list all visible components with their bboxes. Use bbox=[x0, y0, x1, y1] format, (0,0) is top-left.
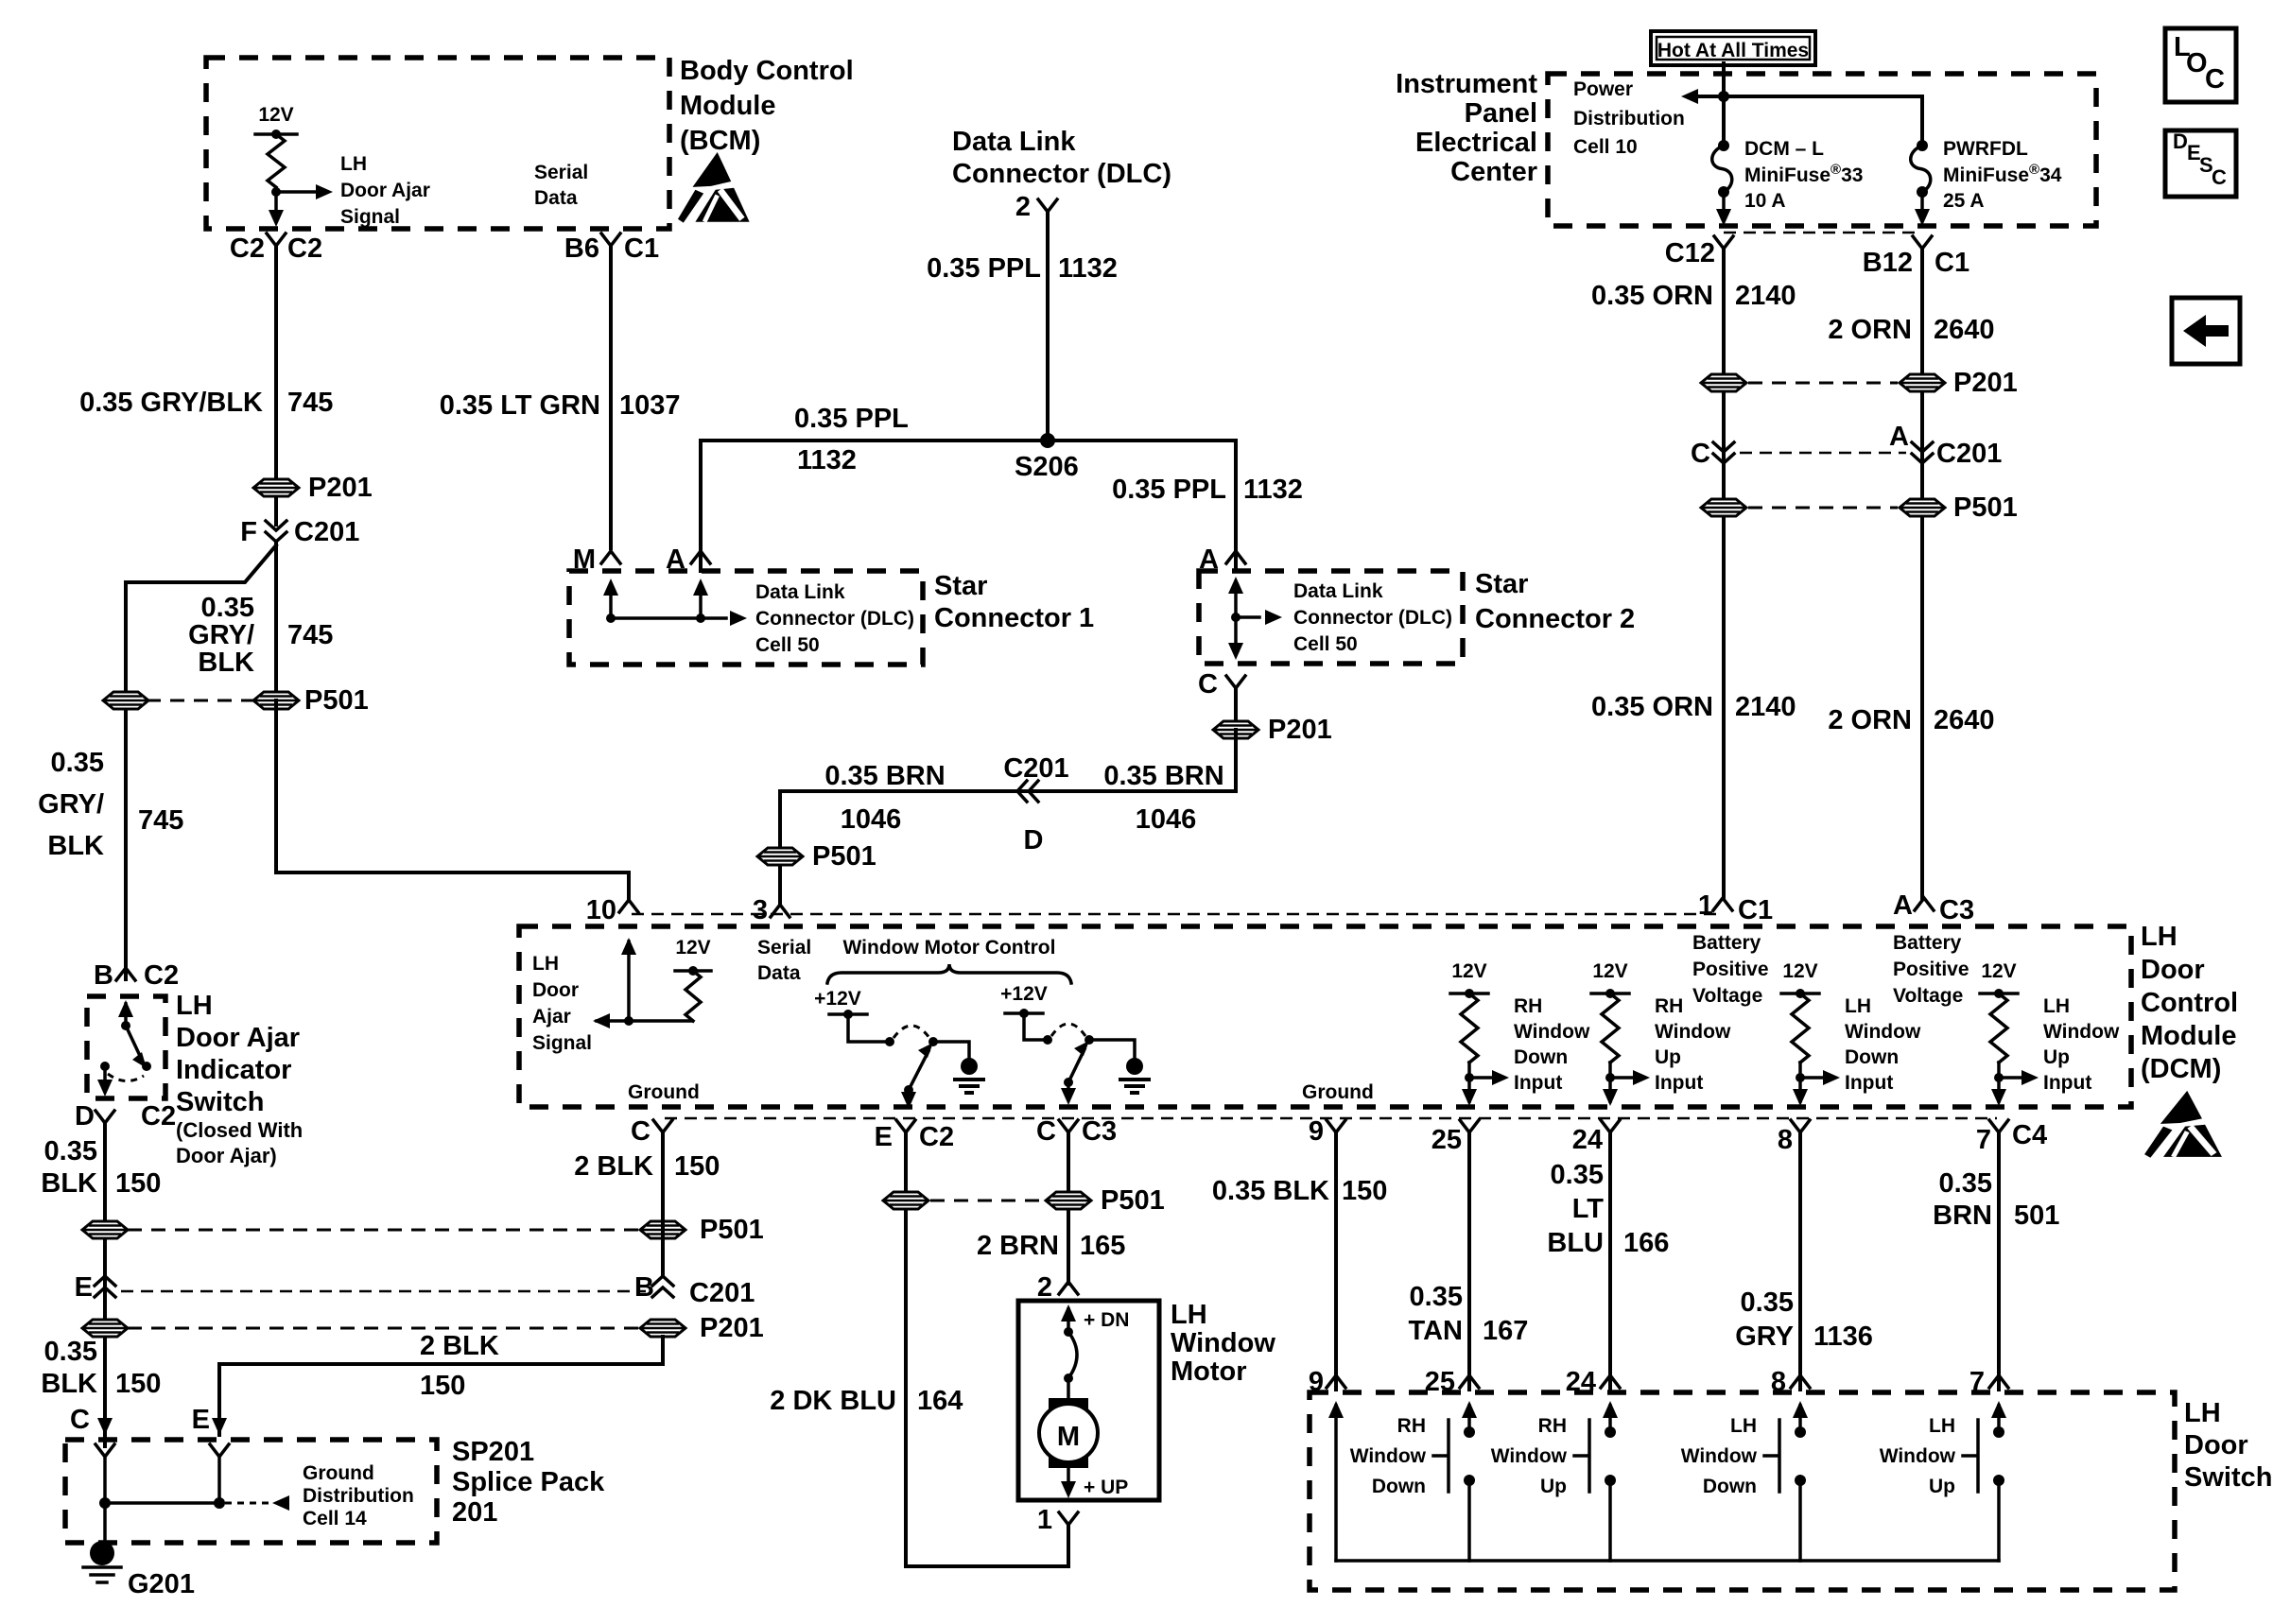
svg-text:25: 25 bbox=[1431, 1125, 1462, 1155]
svg-text:+12V: +12V bbox=[814, 988, 861, 1010]
svg-text:Module: Module bbox=[2141, 1021, 2237, 1051]
svg-text:Signal: Signal bbox=[340, 206, 400, 228]
svg-text:1132: 1132 bbox=[797, 445, 857, 475]
svg-text:Connector 1: Connector 1 bbox=[934, 603, 1094, 633]
svg-text:P501: P501 bbox=[1953, 492, 2018, 523]
svg-text:Input: Input bbox=[1845, 1072, 1893, 1094]
wire 0.35 BRN 501 bbox=[1997, 1132, 2001, 1390]
svg-text:Door: Door bbox=[2141, 955, 2205, 985]
svg-text:B6: B6 bbox=[564, 233, 599, 264]
svg-text:C2: C2 bbox=[141, 1101, 176, 1132]
connector P201 pair ORN bbox=[1748, 382, 1898, 385]
svg-text:Battery: Battery bbox=[1692, 932, 1761, 954]
svg-text:Door: Door bbox=[532, 979, 579, 1001]
svg-text:0.35: 0.35 bbox=[44, 1337, 97, 1367]
svg-text:0.35: 0.35 bbox=[1741, 1287, 1794, 1318]
IPEC connector boundary bbox=[1724, 232, 1922, 234]
svg-text:Ground: Ground bbox=[1302, 1081, 1374, 1103]
svg-text:2 BLK: 2 BLK bbox=[420, 1331, 499, 1361]
svg-text:24: 24 bbox=[1572, 1125, 1603, 1155]
svg-text:Window: Window bbox=[1655, 1021, 1731, 1043]
svg-text:Down: Down bbox=[1703, 1476, 1757, 1497]
svg-text:501: 501 bbox=[2014, 1201, 2059, 1231]
svg-text:10 A: 10 A bbox=[1744, 190, 1786, 212]
svg-text:GRY: GRY bbox=[1735, 1322, 1794, 1352]
svg-text:C: C bbox=[1691, 439, 1710, 469]
svg-text:1136: 1136 bbox=[1813, 1322, 1873, 1352]
svg-text:Cell 10: Cell 10 bbox=[1573, 136, 1638, 158]
svg-text:Window: Window bbox=[2043, 1021, 2120, 1043]
Instrument Panel Electrical Center dashed box bbox=[1548, 74, 2096, 226]
svg-text:150: 150 bbox=[115, 1168, 161, 1199]
svg-text:12V: 12V bbox=[1592, 960, 1627, 982]
svg-text:+ UP: + UP bbox=[1084, 1477, 1128, 1498]
LH Door Ajar Indicator Switch dashed box bbox=[87, 996, 165, 1098]
svg-text:0.35 PPL: 0.35 PPL bbox=[1112, 475, 1226, 505]
wire 0.35 LT BLU 166 bbox=[1608, 1132, 1612, 1390]
svg-text:12V: 12V bbox=[1451, 960, 1486, 982]
svg-text:25 A: 25 A bbox=[1943, 190, 1985, 212]
svg-text:0.35 BRN: 0.35 BRN bbox=[824, 761, 945, 791]
svg-text:(DCM): (DCM) bbox=[2141, 1054, 2221, 1084]
svg-text:0.35 PPL: 0.35 PPL bbox=[794, 404, 909, 434]
svg-text:Serial: Serial bbox=[534, 162, 588, 183]
LOC reference box bbox=[2165, 28, 2236, 102]
svg-text:C201: C201 bbox=[1003, 753, 1068, 784]
svg-text:C2: C2 bbox=[144, 960, 179, 991]
svg-text:Cell 50: Cell 50 bbox=[755, 634, 820, 656]
svg-text:0.35: 0.35 bbox=[1410, 1282, 1463, 1312]
svg-text:PWRFDL: PWRFDL bbox=[1943, 138, 2028, 160]
wire branch diagonal to left leg bbox=[126, 545, 276, 582]
svg-text:9: 9 bbox=[1309, 1116, 1324, 1147]
svg-text:Switch: Switch bbox=[2184, 1462, 2272, 1493]
svg-text:TAN: TAN bbox=[1409, 1316, 1463, 1346]
connector P201 on GRY/BLK wire bbox=[253, 479, 299, 496]
svg-text:1: 1 bbox=[1037, 1505, 1052, 1535]
svg-text:Up: Up bbox=[1929, 1476, 1955, 1497]
svg-text:C1: C1 bbox=[1935, 248, 1969, 278]
svg-text:Star: Star bbox=[934, 571, 987, 601]
svg-text:0.35 GRY/BLK: 0.35 GRY/BLK bbox=[79, 388, 263, 418]
ESD sensitive symbol BCM bbox=[678, 152, 750, 223]
svg-text:0.35: 0.35 bbox=[51, 748, 104, 778]
svg-text:Signal: Signal bbox=[532, 1032, 592, 1054]
LH Door Control Module (DCM) dashed box bbox=[519, 926, 2131, 1107]
svg-text:Serial: Serial bbox=[757, 937, 811, 959]
Star Connector 1 dashed box bbox=[569, 571, 923, 665]
svg-text:Voltage: Voltage bbox=[1893, 985, 1963, 1007]
svg-text:Battery: Battery bbox=[1893, 932, 1962, 954]
svg-text:8: 8 bbox=[1778, 1125, 1793, 1155]
svg-text:C: C bbox=[2212, 165, 2227, 189]
svg-text:C3: C3 bbox=[1082, 1116, 1117, 1147]
svg-text:Door Ajar: Door Ajar bbox=[176, 1023, 300, 1053]
svg-text:Input: Input bbox=[1655, 1072, 1703, 1094]
svg-text:Ground: Ground bbox=[303, 1462, 374, 1484]
connector C201 pin D bbox=[1017, 781, 1027, 802]
svg-text:2140: 2140 bbox=[1735, 281, 1796, 311]
svg-text:GRY/: GRY/ bbox=[188, 620, 254, 650]
svg-text:Control: Control bbox=[2141, 988, 2238, 1018]
svg-text:Input: Input bbox=[2043, 1072, 2091, 1094]
svg-text:Window: Window bbox=[1845, 1021, 1921, 1043]
svg-text:0.35 LT GRN: 0.35 LT GRN bbox=[440, 390, 600, 421]
wire 0.35 ORN 2140 bbox=[1722, 249, 1726, 898]
svg-text:E: E bbox=[192, 1405, 210, 1435]
connector P201 pair lower bbox=[128, 1327, 638, 1330]
svg-text:2: 2 bbox=[1015, 192, 1031, 222]
switch contact arm door ajar bbox=[118, 1000, 133, 1017]
LH Door Switch dashed box bbox=[1310, 1392, 2175, 1590]
svg-text:+12V: +12V bbox=[1000, 983, 1048, 1005]
star connector 2 internal stub bbox=[1234, 584, 1238, 652]
svg-text:Electrical: Electrical bbox=[1415, 128, 1537, 158]
svg-text:10: 10 bbox=[586, 895, 616, 925]
connector P501 left pair bbox=[147, 700, 255, 702]
svg-text:BLK: BLK bbox=[198, 648, 254, 678]
svg-text:0.35 PPL: 0.35 PPL bbox=[927, 253, 1041, 284]
switch LH Window Up bbox=[1991, 1401, 2006, 1418]
svg-text:P201: P201 bbox=[700, 1313, 764, 1343]
resistor BCM pull-up bbox=[268, 134, 285, 187]
svg-text:150: 150 bbox=[420, 1371, 465, 1401]
svg-text:Power: Power bbox=[1573, 78, 1633, 100]
svg-text:C201: C201 bbox=[1936, 439, 2002, 469]
ground symbol switch 2 bbox=[1126, 1058, 1143, 1075]
svg-text:+ DN: + DN bbox=[1084, 1309, 1129, 1331]
svg-text:1132: 1132 bbox=[1058, 253, 1118, 284]
svg-text:P501: P501 bbox=[1101, 1185, 1165, 1216]
svg-text:Positive: Positive bbox=[1692, 959, 1769, 980]
svg-text:E: E bbox=[75, 1272, 93, 1303]
DCM LH Door Ajar Signal circuit bbox=[621, 938, 636, 955]
svg-text:G201: G201 bbox=[128, 1569, 195, 1599]
svg-text:Connector 2: Connector 2 bbox=[1475, 604, 1635, 634]
svg-text:LH: LH bbox=[1171, 1300, 1207, 1330]
svg-text:166: 166 bbox=[1623, 1228, 1669, 1258]
svg-text:150: 150 bbox=[115, 1369, 161, 1399]
svg-text:1132: 1132 bbox=[1243, 475, 1303, 505]
svg-text:Data Link: Data Link bbox=[952, 127, 1076, 157]
wire 2 ORN 2640 bbox=[1920, 249, 1924, 898]
svg-text:167: 167 bbox=[1483, 1316, 1528, 1346]
svg-text:Down: Down bbox=[1845, 1046, 1899, 1068]
BCM 12V rail bbox=[255, 132, 297, 136]
svg-text:Window: Window bbox=[1880, 1445, 1956, 1467]
DCM connector boundary bottom bbox=[665, 1117, 1997, 1120]
door switch bus bbox=[1336, 1559, 1999, 1563]
svg-text:Cell 14: Cell 14 bbox=[303, 1508, 367, 1529]
svg-text:Up: Up bbox=[2043, 1046, 2070, 1068]
svg-text:2 DK BLU: 2 DK BLU bbox=[770, 1386, 896, 1416]
svg-text:BLU: BLU bbox=[1547, 1228, 1604, 1258]
svg-text:Voltage: Voltage bbox=[1692, 985, 1762, 1007]
wire GRY/BLK below C201 bbox=[274, 542, 278, 872]
svg-text:Door Ajar): Door Ajar) bbox=[176, 1144, 277, 1167]
svg-text:Input: Input bbox=[1514, 1072, 1562, 1094]
svg-text:RH: RH bbox=[1538, 1415, 1567, 1437]
svg-text:7: 7 bbox=[1976, 1125, 1991, 1155]
left arrow reference box bbox=[2172, 298, 2240, 364]
svg-text:LH: LH bbox=[532, 953, 559, 975]
svg-text:B12: B12 bbox=[1863, 248, 1913, 278]
svg-text:LT: LT bbox=[1572, 1194, 1605, 1224]
svg-text:LH: LH bbox=[176, 991, 213, 1021]
connector P501 pair to body harness bbox=[128, 1229, 638, 1232]
motor circuit breaker arc bbox=[1061, 1304, 1076, 1322]
wire 2 BRN 165 bbox=[1067, 1132, 1070, 1284]
svg-text:F: F bbox=[240, 517, 257, 547]
svg-text:Down: Down bbox=[1372, 1476, 1426, 1497]
svg-text:C: C bbox=[1036, 1116, 1056, 1147]
svg-text:(BCM): (BCM) bbox=[680, 126, 760, 156]
LH Window Motor box bbox=[1018, 1301, 1159, 1500]
ground distribution dashed stub bbox=[225, 1502, 269, 1505]
wire 0.35 BLK 150 from pin D bbox=[103, 1123, 107, 1446]
wire from Hot At All Times bbox=[1722, 63, 1726, 146]
switch LH Window Down bbox=[1793, 1401, 1808, 1418]
splice bus wires bbox=[103, 1457, 107, 1539]
connector C201 pins C / A bbox=[1740, 452, 1906, 455]
switch 2 wiper to pin C bbox=[1064, 1078, 1073, 1087]
svg-text:1037: 1037 bbox=[619, 390, 681, 421]
svg-text:1046: 1046 bbox=[1136, 804, 1197, 835]
svg-text:P501: P501 bbox=[812, 841, 876, 872]
connector P201 on PPL/BRN wire bbox=[1213, 721, 1258, 738]
svg-text:Data: Data bbox=[534, 187, 578, 209]
svg-text:RH: RH bbox=[1514, 995, 1542, 1017]
svg-text:GRY/: GRY/ bbox=[38, 789, 104, 820]
svg-text:Positive: Positive bbox=[1893, 959, 1969, 980]
svg-text:A: A bbox=[1889, 422, 1909, 452]
svg-text:C201: C201 bbox=[294, 517, 359, 547]
svg-text:2 ORN: 2 ORN bbox=[1828, 705, 1912, 735]
svg-text:P201: P201 bbox=[308, 473, 373, 503]
svg-text:A: A bbox=[1893, 890, 1913, 921]
wire star connector 2 to P201 bbox=[1234, 688, 1238, 791]
switch travel dashed arc bbox=[108, 1074, 144, 1081]
svg-text:Window: Window bbox=[1350, 1445, 1427, 1467]
svg-text:Data Link: Data Link bbox=[755, 581, 845, 603]
svg-text:Distribution: Distribution bbox=[1573, 108, 1685, 130]
svg-text:Ground: Ground bbox=[628, 1081, 700, 1103]
svg-text:C: C bbox=[2205, 64, 2225, 95]
svg-text:Star: Star bbox=[1475, 569, 1528, 599]
svg-text:MiniFuse®34: MiniFuse®34 bbox=[1943, 162, 2062, 186]
wire BCM output down arrow bbox=[274, 192, 278, 212]
ground G201 bbox=[90, 1541, 114, 1565]
ESD sensitive symbol DCM bbox=[2144, 1091, 2222, 1158]
svg-text:P501: P501 bbox=[304, 685, 369, 716]
svg-text:Connector (DLC): Connector (DLC) bbox=[952, 159, 1171, 189]
svg-text:P201: P201 bbox=[1953, 368, 2018, 398]
svg-text:2 BLK: 2 BLK bbox=[574, 1151, 653, 1182]
svg-text:LH: LH bbox=[1730, 1415, 1757, 1437]
svg-text:Cell 50: Cell 50 bbox=[1293, 633, 1358, 655]
svg-text:C4: C4 bbox=[2012, 1120, 2047, 1150]
svg-text:E: E bbox=[875, 1122, 893, 1152]
svg-text:2: 2 bbox=[1037, 1272, 1052, 1303]
SP201 splice pack dashed box bbox=[65, 1440, 437, 1543]
wire motor return bbox=[906, 1524, 1068, 1566]
wire 0.35 PPL 1132 horizontal bbox=[701, 441, 1236, 571]
wire 0.35 GRY 1136 bbox=[1798, 1132, 1802, 1390]
svg-text:M: M bbox=[1057, 1422, 1080, 1452]
svg-text:D: D bbox=[1024, 825, 1044, 855]
svg-text:C2: C2 bbox=[287, 233, 322, 264]
svg-text:DCM – L: DCM – L bbox=[1744, 138, 1824, 160]
svg-text:C12: C12 bbox=[1665, 238, 1715, 268]
svg-text:745: 745 bbox=[287, 620, 333, 650]
svg-text:B: B bbox=[94, 960, 113, 991]
switch 1 wiper to pin E bbox=[904, 1085, 913, 1095]
svg-text:Indicator: Indicator bbox=[176, 1055, 291, 1085]
svg-text:Data Link: Data Link bbox=[1293, 580, 1383, 602]
svg-text:745: 745 bbox=[287, 388, 333, 418]
splice S206 bbox=[1040, 433, 1055, 448]
svg-text:Window: Window bbox=[1491, 1445, 1568, 1467]
svg-text:Window Motor Control: Window Motor Control bbox=[843, 937, 1056, 959]
svg-text:Center: Center bbox=[1450, 157, 1537, 187]
svg-text:D: D bbox=[75, 1101, 95, 1132]
svg-text:201: 201 bbox=[452, 1497, 497, 1528]
switch lower contact to pin D bbox=[100, 1062, 110, 1071]
Star Connector 2 dashed box bbox=[1199, 571, 1463, 664]
door switch ground wire pin 9 bbox=[1328, 1401, 1344, 1418]
svg-text:2 ORN: 2 ORN bbox=[1828, 315, 1912, 345]
svg-text:D: D bbox=[2173, 130, 2188, 153]
svg-text:0.35 ORN: 0.35 ORN bbox=[1591, 281, 1713, 311]
svg-text:LH: LH bbox=[1845, 995, 1871, 1017]
wire 0.35 BLK 150 pin 9 bbox=[1334, 1132, 1338, 1390]
svg-text:C2: C2 bbox=[230, 233, 265, 264]
svg-text:Up: Up bbox=[1540, 1476, 1567, 1497]
svg-text:0.35 BLK: 0.35 BLK bbox=[1212, 1176, 1329, 1206]
svg-text:BRN: BRN bbox=[1933, 1201, 1992, 1231]
svg-text:(Closed With: (Closed With bbox=[176, 1118, 303, 1142]
svg-text:Instrument: Instrument bbox=[1396, 69, 1537, 99]
splice pack pin chevrons bbox=[95, 1444, 114, 1457]
svg-text:LH: LH bbox=[2184, 1398, 2221, 1428]
wire 0.35 GRY/BLK 745 from BCM C2 bbox=[274, 246, 278, 525]
svg-text:0.35 BRN: 0.35 BRN bbox=[1103, 761, 1223, 791]
svg-text:RH: RH bbox=[1397, 1415, 1426, 1437]
svg-text:Panel: Panel bbox=[1465, 98, 1537, 129]
svg-text:Down: Down bbox=[1514, 1046, 1568, 1068]
svg-text:Door Ajar: Door Ajar bbox=[340, 180, 430, 201]
svg-text:12V: 12V bbox=[1782, 960, 1817, 982]
svg-text:Up: Up bbox=[1655, 1046, 1681, 1068]
svg-text:C: C bbox=[631, 1116, 651, 1147]
wire to power distribution arrow bbox=[1696, 96, 1922, 146]
wire 0.35 BRN 1046 horizontal bbox=[780, 730, 1236, 903]
wire LH Door Ajar Signal arrow bbox=[276, 190, 316, 194]
svg-text:BLK: BLK bbox=[41, 1369, 97, 1399]
svg-text:Connector (DLC): Connector (DLC) bbox=[755, 608, 914, 630]
svg-text:Body Control: Body Control bbox=[680, 56, 854, 86]
svg-text:S206: S206 bbox=[1015, 452, 1079, 482]
svg-text:C3: C3 bbox=[1939, 895, 1974, 925]
node BCM junction bbox=[271, 187, 281, 197]
svg-text:1: 1 bbox=[1698, 890, 1713, 921]
svg-text:BLK: BLK bbox=[41, 1168, 97, 1199]
svg-text:2640: 2640 bbox=[1934, 705, 1995, 735]
svg-text:0.35: 0.35 bbox=[201, 593, 254, 623]
svg-text:Switch: Switch bbox=[176, 1087, 264, 1117]
svg-text:C2: C2 bbox=[919, 1122, 954, 1152]
svg-text:0.35: 0.35 bbox=[44, 1136, 97, 1166]
svg-text:BLK: BLK bbox=[47, 831, 104, 861]
wire 2 BLK 150 pin C bbox=[661, 1132, 665, 1276]
connector P501 pair window motor bbox=[930, 1200, 1044, 1202]
svg-text:LH: LH bbox=[340, 153, 367, 175]
svg-text:C: C bbox=[1198, 669, 1218, 700]
svg-text:Hot At All Times: Hot At All Times bbox=[1657, 40, 1809, 61]
svg-text:P201: P201 bbox=[1268, 715, 1332, 745]
svg-text:Motor: Motor bbox=[1171, 1356, 1247, 1387]
wire 0.35 LT GRN 1037 bbox=[609, 246, 613, 548]
wire main leg to DCM pin 10 bbox=[276, 700, 629, 900]
svg-text:150: 150 bbox=[674, 1151, 720, 1182]
svg-text:Module: Module bbox=[680, 91, 776, 121]
Body Control Module (BCM) dashed box bbox=[206, 58, 669, 229]
svg-text:RH: RH bbox=[1655, 995, 1683, 1017]
svg-text:C1: C1 bbox=[1738, 895, 1773, 925]
svg-text:C1: C1 bbox=[624, 233, 659, 264]
svg-text:1046: 1046 bbox=[841, 804, 902, 835]
DESC reference box bbox=[2165, 130, 2236, 197]
svg-text:Data: Data bbox=[757, 962, 801, 984]
svg-text:2640: 2640 bbox=[1934, 315, 1995, 345]
svg-text:0.35: 0.35 bbox=[1939, 1168, 1992, 1199]
switch RH Window Up bbox=[1603, 1401, 1618, 1418]
svg-text:Window: Window bbox=[1681, 1445, 1758, 1467]
svg-text:MiniFuse®33: MiniFuse®33 bbox=[1744, 162, 1863, 186]
svg-text:164: 164 bbox=[917, 1386, 963, 1416]
svg-text:12V: 12V bbox=[1981, 960, 2016, 982]
wire left leg GRY/BLK down bbox=[124, 582, 128, 979]
svg-text:2140: 2140 bbox=[1735, 692, 1796, 722]
svg-text:P501: P501 bbox=[700, 1215, 764, 1245]
switch RH Window Down bbox=[1462, 1401, 1477, 1418]
svg-text:C: C bbox=[70, 1405, 90, 1435]
svg-text:150: 150 bbox=[1342, 1176, 1387, 1206]
ground symbol switch 1 bbox=[961, 1058, 978, 1075]
svg-text:LH: LH bbox=[2043, 995, 2070, 1017]
svg-text:Door: Door bbox=[2184, 1430, 2248, 1460]
fuse DCM-L MiniFuse 33 10A bbox=[1718, 140, 1729, 151]
Hot At All Times box bbox=[1651, 31, 1815, 65]
svg-text:3: 3 bbox=[753, 895, 768, 925]
svg-text:165: 165 bbox=[1080, 1231, 1125, 1261]
svg-text:Distribution: Distribution bbox=[303, 1485, 414, 1507]
DCM connector boundary top bbox=[632, 913, 1719, 916]
motor M symbol bbox=[1049, 1398, 1088, 1414]
svg-text:12V: 12V bbox=[675, 937, 710, 959]
svg-text:Window: Window bbox=[1514, 1021, 1590, 1043]
svg-text:Ajar: Ajar bbox=[532, 1006, 571, 1028]
svg-text:Splice Pack: Splice Pack bbox=[452, 1467, 605, 1497]
svg-text:Connector (DLC): Connector (DLC) bbox=[1293, 607, 1452, 629]
wire 0.35 TAN 167 bbox=[1467, 1132, 1471, 1390]
svg-text:SP201: SP201 bbox=[452, 1437, 534, 1467]
svg-text:LH: LH bbox=[1929, 1415, 1955, 1437]
fuse PWRFDL MiniFuse 34 25A bbox=[1917, 140, 1928, 151]
star connector 1 internal bus bbox=[609, 586, 613, 618]
connector P501 pair ORN bbox=[1748, 507, 1898, 510]
wire 2 BLK 150 horizontal run bbox=[219, 1337, 663, 1435]
